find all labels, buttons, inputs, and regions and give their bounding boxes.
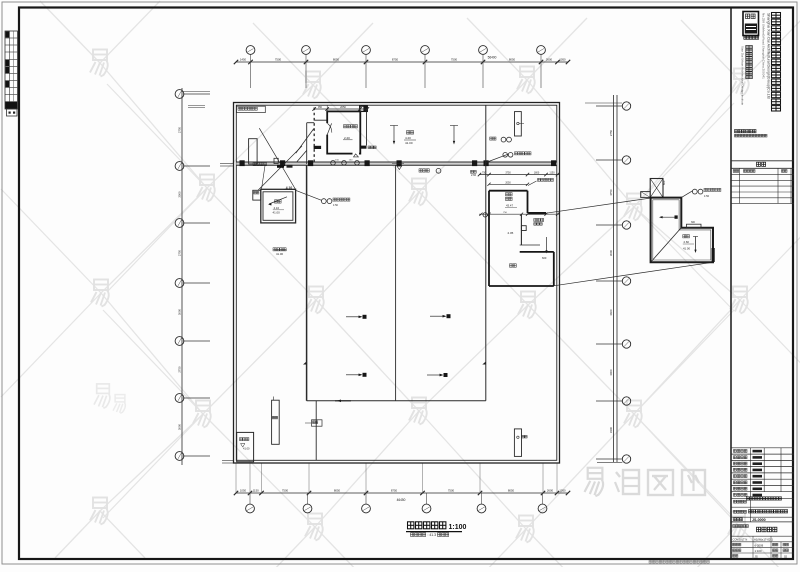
svg-text:Shanghai Xian Dai Architectura: Shanghai Xian Dai Architectural Design(G…	[767, 13, 771, 99]
svg-text:3000: 3000	[609, 369, 613, 376]
svg-text:A1(W)x17-02-1: A1(W)x17-02-1	[754, 538, 773, 542]
svg-text:8750: 8750	[392, 58, 399, 62]
svg-text:8050: 8050	[334, 488, 341, 492]
svg-text:1:100: 1:100	[449, 524, 467, 531]
svg-text:2750: 2750	[177, 249, 181, 256]
svg-text:JS-0000: JS-0000	[752, 518, 766, 522]
svg-text:3000: 3000	[177, 423, 181, 430]
svg-text:41.00: 41.00	[405, 141, 413, 145]
svg-text:4.10: 4.10	[274, 206, 280, 210]
svg-text:2750: 2750	[177, 126, 181, 133]
svg-text:2750: 2750	[177, 366, 181, 373]
svg-text:3300: 3300	[609, 426, 613, 433]
svg-text:8750: 8750	[391, 488, 398, 492]
svg-text:750: 750	[482, 172, 487, 175]
svg-text:950: 950	[318, 106, 323, 109]
svg-text:3750: 3750	[609, 189, 613, 196]
svg-text:2600: 2600	[546, 58, 553, 62]
svg-text:2.20: 2.20	[344, 136, 350, 140]
svg-text:1050: 1050	[559, 58, 566, 62]
svg-text:3000: 3000	[609, 249, 613, 256]
svg-text:41.00: 41.00	[273, 211, 281, 215]
svg-text:4.20: 4.20	[405, 136, 411, 140]
svg-text:02: 02	[784, 555, 788, 559]
svg-text:3000: 3000	[177, 191, 181, 198]
svg-text:600: 600	[662, 180, 666, 185]
svg-text:3750: 3750	[505, 172, 511, 175]
svg-text:8050: 8050	[509, 58, 516, 62]
svg-text:1:50: 1:50	[333, 204, 338, 207]
svg-text:7500: 7500	[448, 488, 455, 492]
svg-text:1450: 1450	[240, 58, 247, 62]
svg-text:7500: 7500	[451, 58, 458, 62]
svg-text:7500: 7500	[275, 58, 282, 62]
svg-text:CONSULT N: CONSULT N	[733, 538, 748, 542]
svg-text:3000: 3000	[177, 308, 181, 315]
svg-text:43.47: 43.47	[506, 204, 513, 208]
svg-text:8050: 8050	[333, 58, 340, 62]
svg-text:56400: 56400	[488, 56, 497, 60]
svg-text:41.00: 41.00	[683, 247, 690, 251]
svg-text:2.60: 2.60	[684, 240, 690, 244]
svg-text:1800: 1800	[534, 172, 540, 175]
svg-text:: 41.3: : 41.3	[428, 533, 437, 537]
svg-text:Xian Dai Urban Architectural D: Xian Dai Urban Architectural Design Inst…	[741, 46, 745, 106]
svg-text:1:50: 1:50	[704, 194, 710, 198]
svg-text:1050: 1050	[559, 488, 566, 492]
svg-text:1050: 1050	[240, 488, 247, 492]
svg-text:600: 600	[542, 256, 547, 260]
svg-text:2050: 2050	[505, 181, 511, 184]
svg-text:No.258 ShiMenErRoad Shanghai C: No.258 ShiMenErRoad Shanghai China 20004…	[762, 13, 766, 79]
svg-text:2.05: 2.05	[508, 231, 514, 235]
svg-text:1150: 1150	[549, 172, 555, 175]
svg-text:2050: 2050	[340, 105, 346, 109]
svg-text:2750: 2750	[609, 129, 613, 136]
svg-text:41.00: 41.00	[276, 252, 283, 256]
svg-text:2600: 2600	[547, 488, 554, 492]
svg-text:2.60: 2.60	[471, 173, 477, 177]
svg-text:7500: 7500	[282, 488, 289, 492]
svg-text:JS: JS	[755, 555, 758, 559]
svg-text:1:100: 1:100	[755, 549, 762, 553]
svg-text:1150: 1150	[253, 488, 259, 492]
svg-text:3600: 3600	[609, 309, 613, 316]
svg-text:46450: 46450	[397, 498, 406, 502]
svg-text:8050: 8050	[508, 488, 515, 492]
svg-text:41.00: 41.00	[243, 447, 250, 451]
svg-text:6-2009: 6-2009	[755, 544, 764, 548]
